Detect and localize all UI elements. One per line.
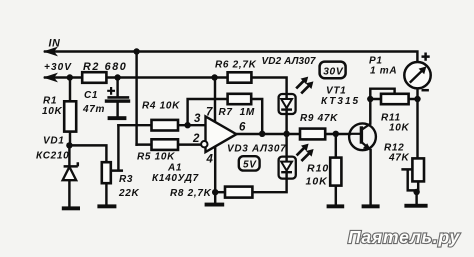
svg-text:IN: IN: [49, 38, 61, 50]
svg-text:1 mA: 1 mA: [370, 66, 397, 77]
ground (VT1 emitter): [362, 204, 380, 208]
wire R10 leads: [335, 134, 337, 205]
resistor R5: [152, 139, 179, 150]
node dot R7/output: [259, 131, 265, 137]
ground (C1): [108, 116, 127, 120]
svg-text:C1: C1: [84, 90, 98, 101]
svg-text:R7 1M: R7 1M: [219, 107, 255, 118]
svg-text:7: 7: [206, 107, 213, 119]
node dot VD1/R1/R3: [66, 142, 72, 148]
node dot C1/+30V: [114, 74, 120, 80]
LED VD3: [279, 144, 314, 179]
zener diode VD1: [63, 162, 78, 180]
svg-text:Паятель.ру: Паятель.ру: [348, 227, 460, 247]
wire R7 right to output: [251, 99, 262, 134]
svg-text:КС210: КС210: [36, 151, 69, 162]
wire R5 left: [137, 143, 152, 145]
wire R3 bottom: [105, 183, 107, 205]
wire VT1 collector up: [369, 99, 371, 124]
resistor R3 (trimmer): [102, 162, 111, 183]
resistor R10: [330, 158, 341, 186]
ground (VD1): [62, 206, 80, 210]
svg-text:4: 4: [206, 153, 214, 165]
svg-text:R9 47K: R9 47K: [300, 113, 338, 124]
svg-text:VD2 АЛ307: VD2 АЛ307: [262, 56, 316, 67]
meter P1: [404, 53, 430, 91]
svg-text:R2 680: R2 680: [83, 61, 127, 73]
ground (R3): [97, 204, 116, 208]
wire R11 wiper tap: [370, 89, 394, 99]
wire pin4 down: [214, 146, 216, 202]
wire R12 wiper tap: [403, 169, 417, 190]
arrow +30V rail: [43, 73, 58, 83]
node dot IN rail: [133, 48, 139, 54]
transistor VT1: [349, 123, 376, 150]
svg-text:VD3 АЛ307: VD3 АЛ307: [227, 144, 286, 155]
wire R3 wiper riser: [111, 125, 122, 170]
node dot R12 bottom: [413, 189, 419, 195]
ground (R10): [327, 204, 345, 208]
svg-text:3: 3: [194, 113, 201, 125]
svg-text:A1: A1: [167, 162, 182, 173]
wire pin3 input: [178, 124, 206, 126]
wire R1 leads: [69, 78, 71, 146]
wire R12 bottom: [417, 181, 419, 204]
svg-text:47K: 47K: [388, 152, 410, 163]
wire C1 leads: [116, 78, 118, 117]
wire R4 left / R3 wiper link: [118, 124, 151, 126]
wire IN drop to pin2: [135, 52, 137, 145]
svg-text:VD1: VD1: [43, 136, 65, 147]
resistor R2: [82, 72, 106, 83]
node dot R1/+30V: [67, 74, 73, 80]
svg-text:47m: 47m: [82, 104, 105, 115]
resistor R11 (trimmer): [381, 94, 409, 104]
node dot R10/base: [333, 131, 339, 137]
svg-text:R10: R10: [307, 162, 329, 174]
node dot VD2/VD3/output: [283, 131, 289, 137]
svg-text:5V: 5V: [243, 159, 257, 170]
ground (R12): [404, 204, 427, 208]
wire R8 left to pin4: [215, 191, 225, 193]
svg-text:6: 6: [239, 121, 246, 133]
ground (pin4 / R8): [205, 203, 225, 207]
svg-text:R5 10K: R5 10K: [137, 151, 175, 162]
node dot pin3: [184, 122, 190, 128]
svg-text:22K: 22K: [118, 188, 140, 199]
wire VD1 leads: [68, 145, 70, 206]
resistor R9: [300, 129, 325, 140]
svg-text:10K: 10K: [42, 106, 63, 117]
wire top IN rail: [45, 52, 417, 63]
svg-text:VT1: VT1: [326, 85, 346, 96]
capacitor C1: [105, 87, 130, 103]
svg-text:R1: R1: [43, 95, 57, 106]
svg-text:2: 2: [192, 133, 200, 145]
wire +30V rail: [45, 78, 287, 99]
wire meter bottom: [416, 88, 418, 99]
svg-text:30V: 30V: [323, 67, 344, 78]
node dot collector/R11: [367, 96, 373, 102]
wire pin2 input: [178, 143, 202, 145]
resistor R8: [225, 187, 252, 198]
svg-text:+30V: +30V: [44, 62, 72, 73]
wire meter node down to R12: [416, 99, 418, 158]
svg-text:КТ315: КТ315: [321, 96, 360, 107]
resistor R12 (trimmer): [412, 158, 424, 181]
node dot meter/R11/R12: [414, 96, 420, 102]
svg-text:R8 2,7K: R8 2,7K: [170, 188, 212, 199]
resistor R4: [152, 120, 179, 131]
node dot pin4/R8: [212, 189, 218, 195]
wire R11 leads: [370, 98, 417, 100]
op-amp A1: [201, 116, 236, 152]
wire node to R3: [69, 145, 106, 162]
resistor R7: [228, 94, 252, 104]
svg-text:R6 2,7K: R6 2,7K: [215, 60, 257, 71]
node 5V callout: [239, 156, 260, 170]
arrow IN rail: [43, 47, 58, 57]
svg-text:10K: 10K: [306, 175, 329, 187]
svg-text:R3: R3: [119, 174, 133, 185]
wire VD3 branch: [252, 134, 286, 192]
wire output to base: [236, 133, 350, 135]
node 30V callout: [320, 62, 346, 79]
wire feedback riser to R7: [188, 99, 228, 125]
resistor R6: [228, 72, 252, 82]
wire VT1 emitter down: [369, 150, 371, 205]
svg-text:10K: 10K: [389, 122, 410, 133]
wire pin7 supply: [214, 78, 216, 123]
LED VD2: [279, 77, 314, 114]
svg-text:R4 10K: R4 10K: [142, 100, 180, 111]
svg-text:К140УД7: К140УД7: [152, 173, 199, 184]
wire VD2 branch: [285, 99, 287, 134]
node dot pin7/+30V: [211, 74, 217, 80]
resistor R1: [64, 101, 76, 131]
